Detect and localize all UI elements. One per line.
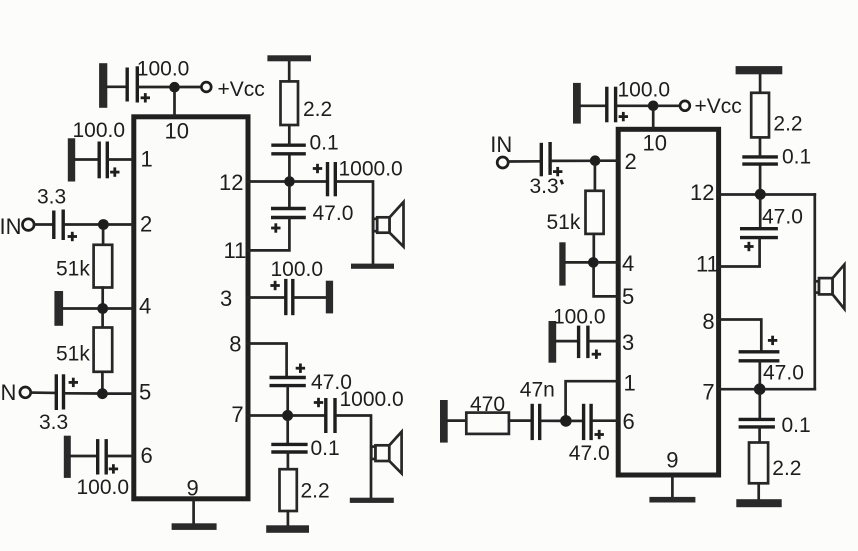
op-amp IC U1 (left amplifier) (134, 117, 248, 499)
wire (108, 307, 133, 310)
svg-text:4: 4 (622, 251, 634, 276)
wire (552, 159, 590, 162)
wire (speaker rail) (813, 195, 816, 390)
ground (R4) (266, 525, 309, 533)
capacitor C20 47.0 (pin 8) (739, 352, 780, 361)
resistor R6 470 (466, 413, 509, 434)
wire (pin 8) (248, 344, 287, 378)
wire (572, 420, 581, 423)
wire (659, 104, 681, 107)
resistor R8 2.2 (749, 443, 768, 484)
capacitor C10 47.0 (pin 8) (270, 378, 306, 386)
C1 polarity + (141, 93, 150, 102)
svg-text:4: 4 (139, 294, 151, 319)
wire (288, 61, 291, 81)
wire (pin 7) (248, 414, 282, 417)
wire (pin 1 feedback) (566, 381, 619, 415)
wire (594, 166, 597, 191)
ground (Vcc decoupling cap, left) (99, 63, 107, 108)
svg-text:5: 5 (139, 380, 151, 405)
node (Vcc junction) (169, 82, 180, 93)
capacitor C21 0.1 (739, 419, 775, 427)
svg-text:0.1: 0.1 (782, 146, 811, 169)
C9 polarity + (270, 281, 279, 290)
svg-text:2.2: 2.2 (773, 112, 802, 135)
svg-text:9: 9 (666, 447, 678, 472)
ground (Vcc decoupling cap, right) (573, 83, 581, 124)
wire (337, 182, 373, 264)
wire (293, 414, 323, 417)
wire (600, 159, 619, 162)
svg-text:3: 3 (622, 330, 634, 355)
wire (757, 483, 760, 499)
svg-text:100.0: 100.0 (271, 258, 324, 281)
node (pin 2) (98, 219, 109, 230)
svg-text:10: 10 (165, 119, 189, 144)
speaker SP1 (373, 202, 403, 247)
wire (593, 419, 619, 422)
svg-text:100.0: 100.0 (137, 57, 190, 80)
svg-text:8: 8 (229, 332, 241, 357)
node (feedback junction) (560, 415, 572, 427)
wire (pin 9) (192, 500, 195, 524)
wire (66, 392, 98, 395)
C10 polarity + (296, 364, 305, 373)
wire (509, 419, 530, 422)
wire (295, 296, 326, 299)
capacitor C8 1000.0 (upper output) (328, 162, 336, 196)
svg-text:2: 2 (140, 212, 152, 237)
capacitor C2 100.0 (pin 1) (99, 142, 107, 179)
svg-text:470: 470 (470, 393, 505, 416)
resistor R2 51k (94, 328, 113, 372)
wire (101, 288, 104, 303)
wire (508, 160, 539, 163)
svg-text:47n: 47n (520, 378, 555, 401)
capacitor C13 100.0 (Vcc decoupling) (607, 87, 616, 123)
svg-text:6: 6 (141, 443, 153, 468)
wire (63, 307, 97, 310)
resistor R7 2.2 (751, 93, 769, 138)
svg-text:1000.0: 1000.0 (339, 158, 403, 181)
svg-text:N: N (1, 380, 17, 405)
node (pin 12 output) (284, 176, 295, 187)
wire (448, 419, 466, 422)
svg-text:3.3: 3.3 (530, 175, 559, 198)
ground (470 resistor) (440, 400, 448, 443)
svg-text:51k: 51k (547, 211, 581, 234)
wire (to pin 10) (173, 93, 176, 116)
wire (139, 86, 170, 89)
svg-text:1: 1 (624, 370, 636, 395)
wire (566, 261, 589, 264)
C19 polarity + (744, 242, 753, 251)
wire (pin 3) (248, 296, 284, 299)
node (pin 7 output right) (754, 383, 766, 395)
svg-text:12: 12 (690, 180, 714, 205)
capacitor C18 0.1 (742, 157, 778, 164)
wire (pin 7 right) (719, 388, 754, 391)
C11 polarity + (314, 398, 323, 407)
ground (pin 1 cap) (68, 138, 75, 181)
C5 polarity + (109, 464, 118, 473)
capacitor C15 100.0 (pin 3 right) (579, 326, 588, 359)
wire (581, 104, 605, 107)
capacitor C3 3.3 (upper input) (54, 210, 63, 241)
capacitor C11 1000.0 (lower output) (326, 398, 335, 433)
wire (542, 419, 560, 422)
svg-text:51k: 51k (56, 257, 90, 280)
ground (pin 4 right) (559, 242, 565, 285)
wire (65, 223, 98, 226)
capacitor C12 0.1 (271, 444, 307, 452)
wire (618, 104, 649, 107)
svg-text:11: 11 (224, 238, 247, 263)
wire (102, 230, 105, 245)
wire (108, 455, 133, 458)
ground (C9) (326, 281, 333, 314)
node (pin 7 output) (282, 410, 293, 421)
svg-text:47.0: 47.0 (762, 206, 803, 229)
wire (599, 261, 620, 264)
wire (to pin 11) (248, 218, 289, 250)
C3 polarity + (68, 232, 77, 241)
svg-text:IN: IN (0, 214, 22, 239)
wire (75, 158, 98, 161)
capacitor C6 0.1 (271, 145, 306, 154)
svg-text:0.1: 0.1 (782, 414, 811, 437)
capacitor C1 100.0 (Vcc decoupling) (127, 66, 137, 102)
svg-text:47.0: 47.0 (313, 202, 354, 225)
ground (pin 9 right) (649, 497, 695, 503)
svg-text:100.0: 100.0 (618, 79, 671, 102)
ground (pin 6 cap) (64, 436, 71, 478)
C15 polarity + (592, 350, 601, 359)
svg-text:100.0: 100.0 (553, 306, 606, 329)
wire (759, 165, 762, 189)
wire (766, 193, 815, 196)
svg-text:+Vcc: +Vcc (218, 78, 265, 101)
capacitor C5 100.0 (pin 6) (98, 439, 107, 474)
wire (to pin 10) (652, 111, 655, 129)
wire (295, 180, 325, 183)
node (pin 4 right) (588, 257, 599, 268)
wire (759, 200, 762, 228)
svg-text:1: 1 (141, 147, 153, 172)
wire (288, 187, 291, 208)
svg-text:6: 6 (623, 409, 635, 434)
svg-text:2.2: 2.2 (301, 480, 330, 503)
C20 polarity + (768, 336, 777, 345)
wire (pin 12 right) (719, 193, 755, 196)
capacitor C9 100.0 (pin 3) (286, 279, 293, 315)
op-amp IC U2 (right amplifier, BTL) (618, 129, 718, 475)
wire (288, 154, 291, 176)
wire (34, 223, 52, 226)
ground (SP2) (350, 498, 394, 503)
svg-text:3.3: 3.3 (39, 411, 68, 434)
svg-text:10: 10 (643, 130, 667, 155)
scan mark (apostrophe after 3.3) (561, 180, 563, 184)
wire (to pin 5) (594, 268, 619, 297)
wire (287, 453, 290, 470)
ground (SP1) (351, 264, 394, 269)
terminal circle (20, 387, 31, 398)
wire (337, 416, 371, 498)
wire (759, 138, 762, 157)
resistor R3 2.2 (281, 81, 299, 125)
capacitor C4 3.3 (lower input) (56, 374, 63, 410)
ground (pin 9) (172, 523, 217, 530)
wire (180, 86, 201, 89)
wire (109, 158, 134, 161)
svg-text:1000.0: 1000.0 (340, 388, 404, 411)
svg-text:2: 2 (625, 149, 637, 174)
C8 polarity + (313, 164, 322, 173)
svg-text:2.2: 2.2 (303, 98, 332, 121)
svg-text:47.0: 47.0 (763, 362, 804, 385)
svg-text:5: 5 (622, 284, 634, 309)
svg-text:0.1: 0.1 (310, 131, 339, 154)
C2 polarity + (110, 167, 119, 176)
svg-text:7: 7 (231, 402, 243, 427)
ground (pin 4) (54, 291, 63, 326)
wire (592, 234, 595, 257)
node (Vcc junction right) (648, 101, 659, 112)
wire (pin 9 right) (671, 477, 674, 497)
wire (758, 361, 761, 383)
capacitor C19 47.0 (pins 12-11) (740, 229, 778, 238)
speaker SP3 (815, 265, 845, 309)
capacitor C14 3.3 (right input) (541, 142, 550, 176)
wire (101, 314, 104, 327)
node (pin 5) (97, 388, 108, 399)
terminal +Vcc (680, 101, 690, 111)
ground (pin 3 cap right) (549, 321, 557, 363)
resistor R5 51k (586, 191, 604, 234)
svg-text:12: 12 (219, 170, 243, 195)
svg-text:100.0: 100.0 (73, 119, 126, 142)
capacitor C17 47.0 (pin 6) (584, 404, 592, 440)
wire (286, 386, 289, 410)
ground (top of R7) (736, 66, 783, 74)
capacitor C16 47n (532, 404, 540, 440)
wire (288, 125, 291, 145)
C7 polarity + (271, 223, 280, 232)
terminal circle (497, 157, 508, 168)
C17 polarity + (595, 430, 604, 439)
node (pin 2 right) (590, 155, 601, 166)
svg-text:51k: 51k (56, 342, 90, 365)
svg-text:0.1: 0.1 (311, 437, 340, 460)
svg-text:IN: IN (490, 132, 512, 157)
svg-text:47.0: 47.0 (569, 442, 610, 465)
ground (top of R3) (267, 55, 311, 61)
resistor R4 2.2 (280, 469, 297, 511)
C14 polarity + (553, 167, 562, 176)
svg-text:100.0: 100.0 (77, 476, 130, 499)
svg-text:11: 11 (696, 252, 719, 277)
C13 polarity + (619, 112, 628, 121)
wire (pin 8 right) (719, 320, 761, 352)
capacitor C7 47.0 (271, 209, 306, 218)
svg-text:+Vcc: +Vcc (695, 95, 742, 118)
terminal circle (23, 219, 35, 231)
node (pin 4) (97, 303, 108, 314)
svg-text:9: 9 (187, 476, 199, 501)
wire (758, 395, 761, 419)
ground (R8) (736, 499, 781, 507)
resistor R1 51k (94, 245, 113, 288)
wire (766, 388, 815, 391)
svg-text:3: 3 (220, 286, 232, 311)
wire (590, 340, 619, 343)
wire (287, 511, 290, 525)
C4 polarity + (69, 378, 78, 387)
wire (pin 12) (248, 180, 284, 183)
wire (759, 75, 762, 93)
terminal +Vcc (201, 82, 211, 92)
wire (to pin 11) (719, 238, 760, 266)
wire (101, 372, 104, 388)
wire (107, 85, 126, 88)
svg-text:2.2: 2.2 (772, 457, 801, 480)
node (pin 12 output right) (755, 189, 766, 200)
svg-text:7: 7 (702, 379, 714, 404)
wire (109, 223, 133, 226)
wire (556, 340, 576, 343)
wire (108, 392, 133, 395)
svg-text:3.3: 3.3 (37, 186, 66, 209)
wire (286, 421, 289, 444)
svg-text:8: 8 (702, 309, 714, 334)
wire (758, 427, 761, 442)
wire (71, 455, 96, 458)
speaker SP2 (371, 432, 401, 474)
wire (31, 391, 55, 394)
